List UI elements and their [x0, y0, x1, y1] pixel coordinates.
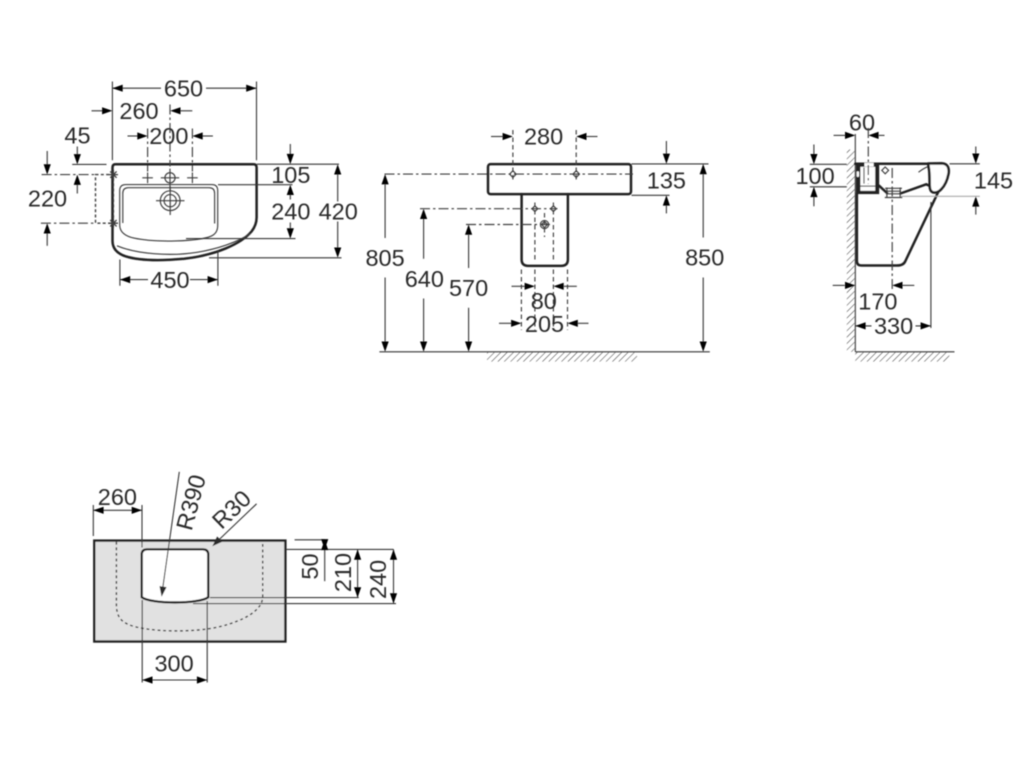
- wall line: [854, 134, 856, 352]
- svg-text:260: 260: [119, 98, 158, 124]
- bracket centerline bottom: [41, 222, 96, 224]
- tap hole right cross: [187, 173, 198, 184]
- svg-text:450: 450: [150, 267, 189, 293]
- deck top line: [855, 163, 927, 166]
- overflow hole diamond: [882, 167, 889, 174]
- dim 300 extensions: [142, 600, 207, 683]
- svg-text:260: 260: [98, 484, 137, 510]
- pedestal fixing hole left: [532, 206, 538, 212]
- svg-text:850: 850: [685, 245, 724, 271]
- svg-text:60: 60: [849, 109, 875, 135]
- svg-text:280: 280: [524, 124, 563, 150]
- dim 100: [813, 145, 815, 155]
- front lip (section): [928, 163, 949, 192]
- cutout hole: [142, 549, 209, 602]
- dim 570: [465, 225, 472, 235]
- tap hole left cross: [142, 173, 153, 184]
- svg-text:170: 170: [858, 289, 897, 315]
- bowl bottom right: [900, 184, 931, 193]
- pedestal holes centerline: [420, 208, 558, 210]
- basin outer outline (plan): [113, 164, 257, 260]
- svg-text:145: 145: [974, 168, 1013, 194]
- dim 50: [324, 540, 326, 581]
- dim 640: [420, 209, 427, 219]
- dim 240: [287, 185, 294, 195]
- svg-text:50: 50: [297, 553, 323, 579]
- svg-text:105: 105: [271, 162, 310, 188]
- pedestal fixing hole right: [551, 206, 557, 212]
- dim 100 extension lines: [810, 164, 847, 187]
- dim 450: [120, 250, 218, 286]
- dim 280: [491, 136, 503, 138]
- svg-text:205: 205: [525, 311, 564, 337]
- countertop panel: [94, 541, 285, 642]
- ground line (center view): [379, 351, 709, 353]
- bolt axis: [867, 128, 869, 184]
- ground hatch (center view): [487, 352, 637, 361]
- front ledge arc: [117, 233, 251, 254]
- svg-text:45: 45: [64, 122, 90, 148]
- basin dashed outline under counter: [116, 542, 262, 631]
- dim 300: [142, 679, 207, 681]
- faucet hole center: [165, 173, 175, 183]
- dim 330: [855, 325, 931, 327]
- floor hatch (side view): [855, 352, 949, 361]
- drain centerline: [466, 224, 550, 226]
- wall hatch: [847, 150, 855, 352]
- dim 170: [833, 284, 845, 286]
- fixing star mark top: [109, 170, 118, 179]
- svg-text:220: 220: [28, 186, 67, 212]
- dim 420: [334, 164, 341, 174]
- floor line (side view): [855, 351, 954, 353]
- dim 805: [382, 174, 389, 184]
- pedestal drain hole: [540, 220, 548, 228]
- dim 650: [112, 82, 256, 161]
- bowl bottom left: [879, 186, 887, 193]
- svg-text:640: 640: [405, 266, 444, 292]
- svg-text:200: 200: [149, 123, 188, 149]
- dim 105: [289, 144, 291, 154]
- dim 210: [357, 549, 359, 597]
- inner bowl outline: [120, 185, 218, 241]
- svg-text:650: 650: [164, 75, 203, 101]
- dim 260 (counter): [93, 509, 142, 511]
- svg-text:805: 805: [365, 245, 404, 271]
- slab hole axis left: [512, 130, 514, 181]
- wall bracket dashed rectangle: [96, 175, 114, 224]
- dim 135: [665, 141, 667, 154]
- pedestal edge extensions: [521, 270, 567, 331]
- inner rim inset line: [123, 188, 215, 224]
- drain hole: [160, 191, 180, 211]
- dim 145: [975, 147, 977, 154]
- svg-text:135: 135: [647, 168, 686, 194]
- dim 145 extensions: [950, 163, 980, 165]
- dim 200: [128, 135, 138, 137]
- slab fixing hole right: [573, 171, 580, 178]
- dim 205: [499, 322, 511, 324]
- svg-text:210: 210: [330, 553, 356, 592]
- basin slab (rear): [488, 164, 631, 194]
- leader R390: [163, 472, 180, 589]
- slab hole axis right: [575, 130, 577, 181]
- dim 850: [700, 164, 707, 174]
- tap centerlines: [147, 129, 149, 172]
- dim 330 extension: [930, 202, 932, 328]
- right side extension lines: [193, 540, 396, 604]
- svg-text:330: 330: [874, 313, 913, 339]
- bracket centerline top: [42, 174, 96, 176]
- svg-text:240: 240: [271, 199, 310, 225]
- svg-text:240: 240: [365, 560, 391, 599]
- wall bracket (black): [856, 164, 879, 194]
- dim 80: [512, 285, 525, 287]
- rim silhouette thin arc: [919, 164, 936, 172]
- slab centerline: [385, 173, 634, 175]
- waste fitting threads: [887, 188, 900, 198]
- dim 260 extensions: [93, 505, 142, 548]
- fixing star mark bottom: [109, 219, 118, 228]
- svg-text:80: 80: [531, 288, 557, 314]
- dim 220: [46, 151, 48, 165]
- svg-text:100: 100: [795, 163, 834, 189]
- svg-text:570: 570: [449, 275, 488, 301]
- basin body outline (section): [857, 185, 942, 266]
- svg-text:300: 300: [154, 651, 193, 677]
- leader R30: [219, 504, 256, 540]
- pedestal (semi-pedestal): [522, 194, 568, 266]
- dim 135 extension lines: [632, 164, 709, 195]
- dim 260: [92, 110, 103, 112]
- svg-text:420: 420: [319, 199, 358, 225]
- pedestal hole axes: [534, 203, 536, 262]
- dim 240: [393, 549, 395, 603]
- drain axis (section): [891, 168, 893, 291]
- slab fixing hole left: [510, 171, 517, 178]
- dim 105/240 extension lines: [186, 164, 342, 258]
